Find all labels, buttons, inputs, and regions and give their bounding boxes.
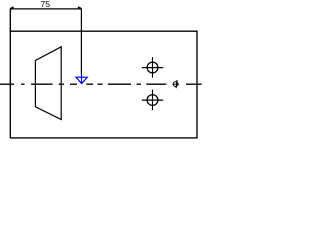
svg-text:75: 75 [41, 0, 51, 9]
datum leader blue line [81, 74, 83, 84]
centerline dash [70, 83, 77, 85]
dimension line 75 [10, 8, 81, 10]
centerline dash [31, 83, 53, 85]
centerline dot [137, 83, 142, 85]
trapezoid body [35, 47, 61, 120]
centerline dash [86, 83, 93, 85]
datum triangle blue [76, 77, 87, 83]
centerline dash [146, 83, 166, 85]
centerline dot [98, 83, 103, 85]
dimension tick right [78, 7, 81, 9]
hole bottom crosshair vertical [152, 90, 154, 111]
centerline dash [108, 83, 131, 85]
centerline dot [59, 83, 64, 85]
hole top crosshair vertical [152, 57, 154, 78]
centerline dash [186, 83, 202, 85]
point marker ring [173, 82, 178, 87]
hole circle top [147, 62, 158, 73]
extension line left [9, 9, 11, 32]
point marker vertical stroke [175, 80, 178, 88]
centerline dash [0, 83, 14, 85]
part outline rectangle [10, 31, 197, 138]
hole top crosshair horizontal [142, 67, 163, 69]
hole bottom crosshair horizontal [142, 99, 163, 101]
hole circle bottom [147, 95, 158, 106]
centerline dot [21, 83, 24, 85]
extension line right [80, 9, 82, 74]
dimension tick left [10, 7, 13, 9]
point marker horizontal tick [173, 83, 180, 85]
